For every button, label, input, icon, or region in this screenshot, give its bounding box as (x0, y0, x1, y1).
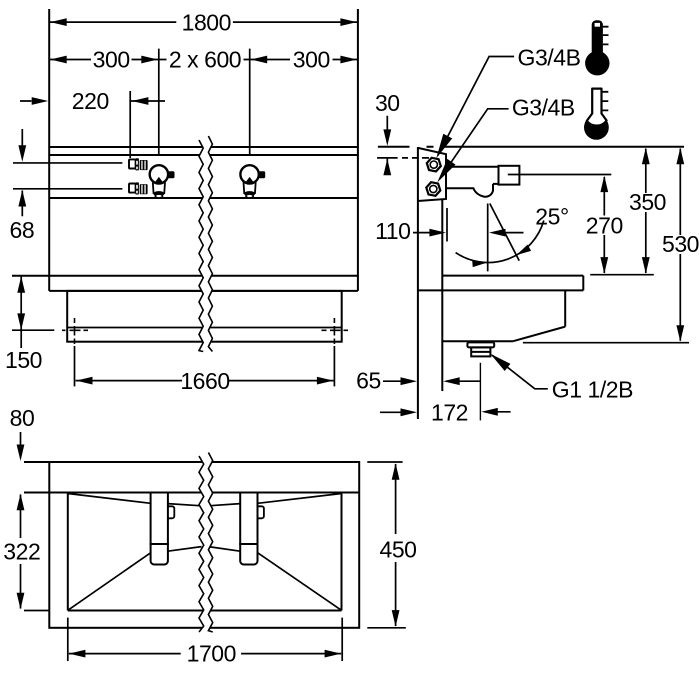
arrows dim 322 (17, 494, 25, 511)
basin upstand back edge + 65 dim extension (441, 199, 443, 391)
dim 68 arrow shafts (21, 129, 23, 216)
pillar tap right (front view) (240, 165, 265, 198)
svg-text:530: 530 (662, 231, 699, 257)
bowl front vertical (564, 290, 566, 326)
faucet left (plan view) (151, 493, 175, 565)
arrows dim 110 (429, 229, 446, 237)
svg-text:350: 350 (629, 189, 666, 215)
dim 450 ticks (367, 462, 406, 628)
arrows dim 65 (401, 377, 418, 385)
spout axis reference line (270 dim) (508, 174, 612, 176)
thermometer cold (outline) (584, 89, 609, 140)
bowl slope diagonals right basin (209, 494, 342, 611)
front view left edge (48, 9, 50, 291)
dim 150 line (20, 277, 22, 330)
svg-text:300: 300 (93, 47, 130, 73)
bowl slope diagonals left basin (68, 494, 202, 611)
dim 2x600 line stubs (159, 59, 250, 61)
svg-text:450: 450 (379, 537, 416, 563)
bowl bottom (442, 340, 513, 342)
dim 300 right line (250, 59, 358, 61)
arrows dim 1660 (76, 377, 93, 385)
cold angle valve fittings (front view) (129, 182, 148, 194)
side view top line (wall level) (378, 146, 684, 148)
spout end cap (499, 166, 520, 185)
dim 300 left line (49, 59, 159, 61)
arrows dim 350 (642, 148, 650, 165)
svg-text:68: 68 (10, 217, 35, 243)
arrows dim 150 (17, 276, 25, 293)
spout underside profile (446, 184, 499, 197)
fitting mounting plate (418, 148, 446, 201)
G3/4B hot connection hex nut (427, 158, 441, 172)
rim level tick (270/350 dims) (590, 274, 654, 276)
svg-text:G3/4B: G3/4B (518, 45, 581, 71)
break zigzag right (front view) (208, 136, 212, 352)
leader line G3/4B cold (440, 109, 509, 179)
G1 1/2B drain fitting (467, 342, 494, 356)
front view bottom fold line with left dimension tail (12, 275, 358, 277)
dim 1660 extension lines (75, 346, 335, 386)
faucet right (plan view) (240, 493, 264, 565)
dim 150 shaft to text (20, 330, 22, 348)
dim 110 shafts (413, 232, 524, 234)
arrows dim 1800 (50, 18, 66, 26)
dim 1800 line (49, 21, 358, 23)
dim 65 shafts (383, 380, 480, 382)
arrows dim 300 left (50, 56, 66, 64)
arrows dim 270 (600, 176, 608, 193)
plan inner basin right edge (341, 493, 343, 611)
arrows dim 30 (383, 129, 391, 146)
arrows dim 300 right (251, 56, 268, 64)
svg-text:65: 65 (356, 368, 381, 394)
hot valve centreline (68 dim top reference) (13, 162, 122, 164)
svg-text:1660: 1660 (180, 368, 229, 394)
dim 270 line (603, 177, 605, 273)
break line mask (front view) (199, 136, 212, 352)
arrows 25deg arc (472, 260, 487, 267)
drain centreline (479, 363, 481, 421)
dim 530 line (679, 149, 681, 341)
dim 110 tick (446, 208, 448, 242)
arrows dim 220 (32, 97, 49, 105)
arrows dim 1700 (69, 650, 86, 658)
svg-text:220: 220 (72, 88, 109, 114)
spray 25deg slanted ray (490, 204, 519, 261)
dim 322 line (20, 495, 22, 609)
dim 450 line (395, 464, 397, 626)
svg-text:G1 1/2B: G1 1/2B (552, 377, 633, 403)
front view trough horizontal edges (49, 147, 358, 291)
left mounting hole centre mark (62, 318, 88, 344)
plan top-edge left tail (80 dim) (24, 461, 49, 463)
dim 220 tails (20, 100, 165, 102)
svg-text:300: 300 (293, 47, 330, 73)
leader arrow G1 1/2B (490, 354, 510, 371)
spout body top (446, 166, 499, 168)
dim 80 shaft (20, 432, 22, 446)
dim 350 line (645, 149, 647, 273)
right mounting hole centre mark (322, 318, 349, 344)
dim 150 bottom tick (12, 329, 54, 331)
svg-text:80: 80 (10, 405, 35, 431)
thermometer hot (filled) (585, 20, 609, 75)
svg-text:270: 270 (586, 213, 623, 239)
leader line G3/4B hot (438, 57, 514, 156)
plan inner basin left edge (67, 493, 69, 611)
bowl sloped bottom (513, 327, 565, 342)
break zigzag left (front view) (199, 140, 203, 352)
hot inlet dashed centreline (377, 157, 429, 159)
svg-text:30: 30 (375, 90, 400, 116)
dim 1700 line (69, 653, 341, 655)
hot angle valve fittings (front view) (129, 158, 148, 170)
plan inner basin bottom (68, 610, 342, 612)
dim 172 shafts (380, 411, 511, 414)
svg-text:1700: 1700 (187, 641, 236, 667)
plan ledge line with left tail (24, 492, 359, 494)
svg-text:150: 150 (5, 347, 42, 373)
svg-text:2 x 600: 2 x 600 (169, 47, 241, 73)
svg-text:25°: 25° (535, 204, 568, 230)
svg-text:172: 172 (431, 399, 468, 425)
cold valve centreline (68 dim bottom reference) (13, 188, 122, 190)
svg-text:1800: 1800 (182, 10, 231, 36)
322 bottom tick tail (24, 610, 49, 612)
dim 1660 line (76, 380, 334, 382)
front view right edge (357, 9, 359, 291)
leader arrow G3/4B cold (437, 159, 455, 183)
wall line (417, 147, 419, 419)
skirt (apron) below trough (67, 291, 342, 342)
svg-text:G3/4B: G3/4B (512, 95, 575, 121)
leader arrow G3/4B hot (436, 134, 452, 159)
pillar tap left (front view) (150, 165, 175, 198)
arrows dim 68 (18, 145, 26, 162)
basin rim line (442, 275, 583, 277)
25deg angular dimension arc (456, 221, 544, 263)
break line mask (plan view) (199, 453, 213, 633)
extension line valve axis (220 dim) (129, 91, 131, 158)
break zigzag left (plan view) (199, 456, 204, 632)
extension line tap1 axis (158, 49, 160, 155)
break zigzag right (plan view) (208, 453, 212, 633)
skirt inner hem line (67, 327, 342, 329)
dim 30 shafts (386, 116, 388, 175)
extension line tap2 axis (249, 49, 251, 155)
arrows dim 450 (392, 463, 400, 480)
dim 1700 extension lines (68, 618, 342, 661)
svg-text:322: 322 (3, 539, 40, 565)
spray vertical ray (487, 204, 489, 272)
plan outer rect (49, 462, 359, 628)
leader line G1 1/2B (492, 355, 548, 389)
apron front edge (582, 276, 584, 291)
rim hem line (418, 289, 583, 291)
skirt bottom level tick (530 dim) (523, 342, 689, 344)
svg-text:110: 110 (375, 218, 410, 244)
arrows dim 172 (401, 408, 418, 416)
arrows dim 530 (676, 148, 684, 165)
arrow dim 80 (17, 445, 25, 462)
G3/4B cold connection hex nut (426, 182, 440, 196)
